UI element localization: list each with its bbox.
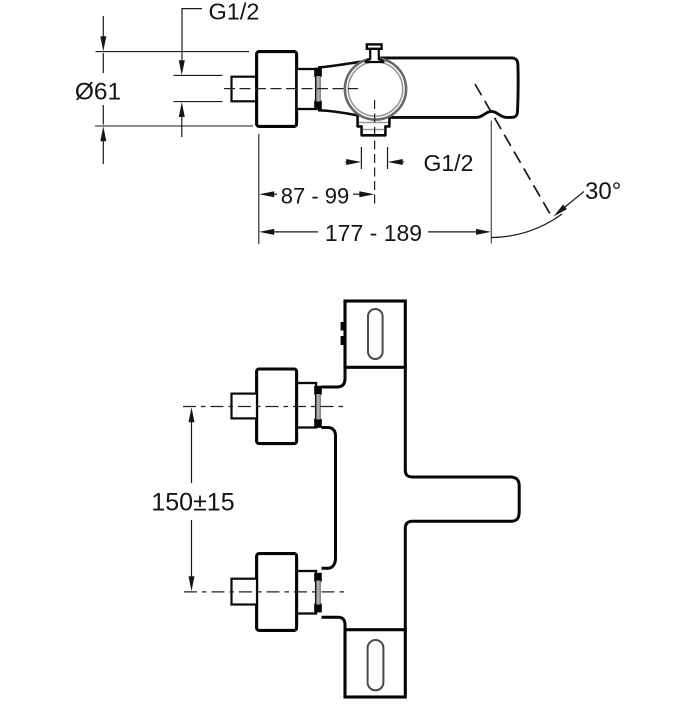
dim: 177 - 189: [259, 121, 491, 247]
dim: Ø61: [75, 16, 253, 164]
lower valve: step: [297, 571, 317, 614]
control handle (top view, left): [257, 52, 297, 127]
main body column + spout (front view): [322, 367, 520, 629]
30 degree dashed axis: [475, 84, 553, 219]
svg-text:30°: 30°: [585, 178, 621, 205]
centerline lower valve: [184, 591, 347, 593]
top wall bracket: [341, 301, 406, 367]
dim: G1/2 outlet: [346, 147, 474, 176]
upper valve: step: [297, 383, 317, 428]
upper valve: junction tabs + gray strip: [314, 386, 322, 428]
centerline upper valve: [183, 406, 345, 408]
dim: 87 - 99: [259, 134, 375, 244]
bottom wall bracket: [345, 630, 405, 697]
svg-text:177 - 189: 177 - 189: [325, 220, 422, 246]
lower valve: handle: [257, 554, 297, 631]
svg-text:87 - 99: 87 - 99: [281, 183, 350, 208]
inlet stub (top view, left): [232, 77, 258, 102]
dim: 150±15: [151, 407, 234, 591]
upper valve: inlet stub: [232, 394, 258, 419]
svg-text:G1/2: G1/2: [209, 0, 260, 25]
dim: G1/2 top label: [174, 0, 260, 137]
body mid section (between handle and cartridge circle): [318, 61, 372, 115]
junction tabs + gray ring strip: [314, 68, 322, 110]
upper valve: handle: [257, 369, 297, 444]
handle step section: [297, 69, 317, 109]
top pin (temperature stop): [366, 44, 384, 62]
dim: 30° angle arc + leader: [492, 178, 622, 238]
svg-text:150±15: 150±15: [151, 488, 234, 516]
spout (top view): [381, 58, 518, 118]
centerline vertical through outlet: [374, 100, 376, 207]
shower outlet collar under circle: [358, 115, 390, 135]
lower valve: junction tabs + gray strip: [314, 573, 322, 613]
lower valve: inlet stub: [232, 579, 258, 605]
centerline horizontal (top view): [224, 88, 358, 90]
svg-text:G1/2: G1/2: [424, 150, 474, 176]
svg-text:Ø61: Ø61: [75, 78, 121, 105]
thermostatic cartridge circle: [345, 58, 406, 119]
